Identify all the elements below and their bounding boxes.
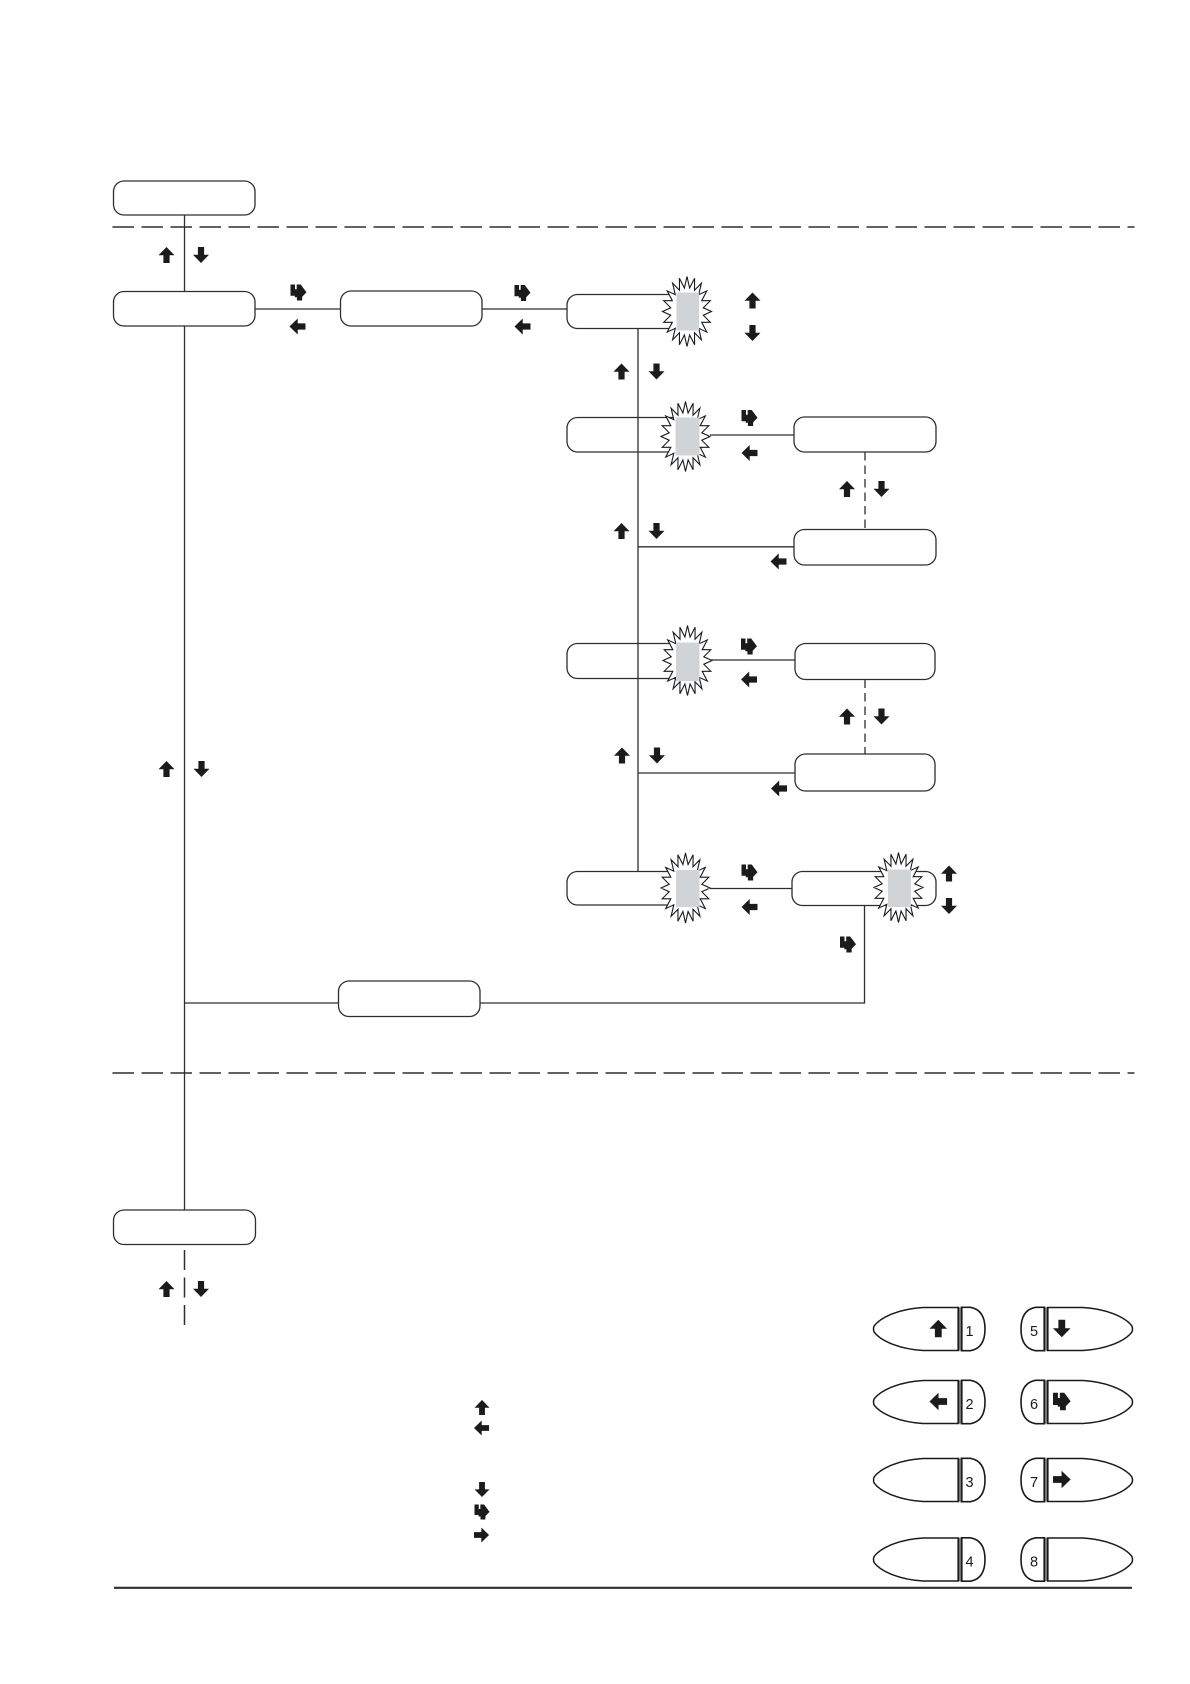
svg-text:4: 4 (965, 1554, 973, 1570)
svg-text:6: 6 (1030, 1397, 1038, 1413)
svg-text:1: 1 (965, 1324, 973, 1340)
svg-text:2: 2 (965, 1397, 973, 1413)
svg-text:5: 5 (1030, 1324, 1038, 1340)
svg-text:8: 8 (1030, 1554, 1038, 1570)
svg-text:7: 7 (1030, 1475, 1038, 1491)
svg-text:3: 3 (965, 1475, 973, 1491)
